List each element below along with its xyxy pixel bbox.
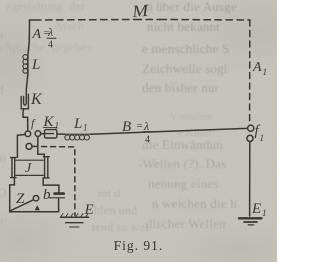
label b — [43, 187, 51, 203]
spark gap f: lower earthed ball — [26, 143, 32, 149]
svg-text:b: b — [43, 187, 51, 203]
battery b — [43, 178, 64, 212]
wire: bottom loop left — [10, 178, 59, 212]
svg-text:λ: λ — [47, 25, 53, 39]
spark gap f1: upper ball — [248, 125, 254, 131]
wire: right ball down to right plate — [38, 137, 45, 157]
spark gap f: right ball — [35, 131, 41, 137]
svg-text:f: f — [31, 116, 36, 130]
svg-text:J: J — [25, 161, 32, 176]
wire: horizontal antenna M (dashed) — [35, 19, 251, 22]
label f — [31, 116, 36, 130]
label A = λ/4 — [32, 25, 54, 51]
svg-text:L: L — [73, 116, 82, 132]
svg-text:4: 4 — [48, 40, 53, 51]
caption — [0, 238, 277, 254]
inductor L1 (coil) — [65, 133, 91, 135]
svg-text:Z: Z — [16, 191, 25, 207]
spark gap f1: lower ball — [247, 135, 253, 141]
svg-text:E: E — [251, 201, 261, 217]
detector K (cell with U electrode) — [21, 90, 28, 109]
induction coil J — [11, 157, 50, 178]
svg-text:=: = — [137, 120, 143, 132]
label K1 — [43, 114, 60, 131]
svg-text:λ: λ — [143, 119, 149, 133]
label J — [25, 161, 32, 176]
wire — [23, 109, 28, 131]
svg-text:K: K — [30, 91, 43, 108]
wire: dashed connection lower ball to earth E — [33, 146, 75, 215]
label L — [31, 57, 40, 73]
key Z (telegraph key) — [11, 196, 40, 211]
svg-text:1: 1 — [262, 208, 267, 218]
svg-text:A: A — [32, 27, 42, 42]
label L1 — [73, 116, 88, 133]
svg-text:L: L — [31, 57, 40, 73]
svg-text:1: 1 — [260, 133, 265, 143]
wire: left ball to induction coil left plate — [17, 135, 25, 158]
svg-text:1: 1 — [263, 67, 268, 77]
svg-text:E: E — [84, 202, 94, 218]
wire — [57, 133, 65, 135]
svg-text:M: M — [130, 1, 150, 21]
wire: f1 to earth E1 — [249, 142, 251, 217]
ghost bleedthrough text — [6, 0, 85, 14]
svg-text:B: B — [122, 119, 131, 135]
ground E — [61, 214, 89, 228]
spark gap f: left ball — [25, 131, 31, 137]
svg-text:1: 1 — [83, 123, 88, 133]
label K — [30, 91, 43, 108]
label M (antenna) — [130, 1, 150, 21]
label A1 — [252, 60, 267, 77]
label E — [84, 202, 94, 218]
coherer K1 — [45, 130, 57, 138]
svg-text:1: 1 — [55, 121, 60, 131]
wire: left antenna lead A (vertical) — [28, 20, 34, 55]
ground E1 — [239, 218, 262, 225]
label E1 — [251, 201, 267, 218]
wire B (lecher line) — [91, 128, 247, 134]
inductor L (coil) — [27, 55, 29, 73]
label Z — [16, 191, 25, 207]
wire: right ball to coherer — [41, 133, 45, 135]
label B = λ/4 — [122, 119, 150, 146]
wire: right antenna lead A1 (dashed) — [249, 20, 251, 124]
wire — [26, 73, 28, 90]
svg-text:A: A — [252, 60, 262, 75]
svg-text:4: 4 — [145, 135, 150, 146]
label f1 — [255, 123, 265, 143]
